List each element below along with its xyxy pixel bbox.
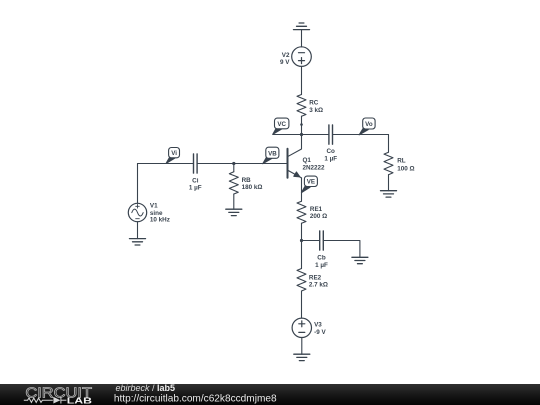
label Cb 1 uF xyxy=(315,255,328,269)
voltage source V1 (sine) xyxy=(128,203,146,221)
wire node to Cb xyxy=(302,240,320,242)
junction dot collector node xyxy=(300,133,303,136)
capacitor Ci xyxy=(194,154,198,173)
label RE1 200 Ohm xyxy=(310,206,327,220)
net flag VE xyxy=(301,176,317,193)
wire RE2 to V3 xyxy=(301,291,303,318)
wire RE1 to Cb node xyxy=(301,223,303,240)
wire V1 branch: top horizontal (base wire) xyxy=(138,163,194,165)
svg-text:2.7 kΩ: 2.7 kΩ xyxy=(309,282,328,289)
svg-text:RL: RL xyxy=(397,158,406,165)
resistor RB xyxy=(229,172,238,194)
label RE2 2.7 kOhm xyxy=(309,275,328,289)
voltage source V2 xyxy=(292,47,312,67)
svg-text:RB: RB xyxy=(242,177,252,184)
logo resistor-diode glyph xyxy=(24,397,67,404)
label V2 9 V xyxy=(280,52,290,66)
junction dot RB node xyxy=(232,162,235,165)
wire V3 to ground xyxy=(301,338,303,355)
svg-text:http://circuitlab.com/c62k8ccd: http://circuitlab.com/c62k8ccdmjme8 xyxy=(114,394,277,405)
svg-text:Q1: Q1 xyxy=(303,157,312,164)
wire down to RL xyxy=(388,135,390,153)
wire Co to RL corner xyxy=(333,134,389,136)
wire Ci to base xyxy=(197,163,287,165)
wire V1 to ground xyxy=(137,222,139,239)
svg-text:V3: V3 xyxy=(314,322,322,329)
svg-text:1 µF: 1 µF xyxy=(324,155,337,162)
svg-text:VE: VE xyxy=(307,179,315,186)
svg-text:100 Ω: 100 Ω xyxy=(397,165,414,172)
ground GND-RB xyxy=(226,209,242,215)
junction dot Cb node xyxy=(300,239,303,242)
svg-text:-9 V: -9 V xyxy=(314,329,326,336)
wire Vi branch down to V1 xyxy=(137,164,139,204)
wire RL to ground xyxy=(388,175,390,191)
svg-text:RC: RC xyxy=(309,99,319,106)
resistor RL xyxy=(384,152,393,175)
label RB 180 kOhm xyxy=(242,177,263,191)
label RC 3 kOhm xyxy=(309,99,323,114)
capacitor Cb xyxy=(320,231,324,250)
label V1 sine 10 kHz xyxy=(150,203,170,224)
svg-text:180 kΩ: 180 kΩ xyxy=(242,184,263,191)
capacitor Co xyxy=(329,125,333,144)
svg-text:Cb: Cb xyxy=(317,255,326,262)
svg-text:Vi: Vi xyxy=(171,150,177,157)
junction dot RC terminal xyxy=(300,123,303,126)
transistor Q1 2N2222 xyxy=(288,135,302,178)
ground GND-V1 xyxy=(130,239,146,245)
svg-text:Co: Co xyxy=(326,148,335,155)
svg-text:1 µF: 1 µF xyxy=(189,185,202,192)
svg-text:9 V: 9 V xyxy=(280,59,290,66)
svg-text:LAB: LAB xyxy=(67,395,92,405)
wire emitter down to RE1 xyxy=(301,178,303,201)
ground GND-RL xyxy=(381,191,397,197)
svg-text:3 kΩ: 3 kΩ xyxy=(309,107,323,114)
label RL 100 Ohm xyxy=(397,158,414,173)
label Q1 2N2222 xyxy=(303,157,326,172)
svg-text:V1: V1 xyxy=(150,203,158,210)
footer bar xyxy=(0,384,540,405)
wire RB to ground xyxy=(233,194,235,209)
svg-text:ebirbeck / lab5: ebirbeck / lab5 xyxy=(116,384,176,393)
ground GND-top (flipped, above V2) xyxy=(294,23,310,47)
resistor RE2 xyxy=(297,269,306,292)
ground GND-Cb xyxy=(352,257,368,263)
resistor RC xyxy=(297,95,306,117)
net flag VB xyxy=(263,147,279,164)
wire Cb to ground corner xyxy=(323,241,360,258)
wire collector node to Co xyxy=(273,134,329,136)
svg-text:RE1: RE1 xyxy=(310,206,323,213)
label Ci 1 uF xyxy=(189,177,202,191)
wire node down to RE2 xyxy=(301,241,303,269)
svg-text:Ci: Ci xyxy=(192,177,199,184)
ground GND-V3 xyxy=(294,354,310,360)
svg-text:2N2222: 2N2222 xyxy=(303,165,326,172)
net flag VC xyxy=(273,118,289,134)
wire RC to collector junction xyxy=(301,116,303,134)
svg-text:VB: VB xyxy=(268,150,277,157)
svg-text:RE2: RE2 xyxy=(309,275,322,282)
label Co 1 uF xyxy=(324,148,337,162)
svg-text:200 Ω: 200 Ω xyxy=(310,213,327,220)
wire RB node down xyxy=(233,164,235,172)
wire V2 to RC xyxy=(301,66,303,94)
svg-text:1 µF: 1 µF xyxy=(315,262,328,269)
net flag Vo xyxy=(359,118,375,135)
svg-text:VC: VC xyxy=(277,121,286,128)
label V3 -9 V xyxy=(314,322,326,336)
svg-text:10 kHz: 10 kHz xyxy=(150,217,170,224)
net flag Vi xyxy=(166,148,179,164)
resistor RE1 xyxy=(297,201,306,223)
voltage source V3 xyxy=(292,318,311,337)
svg-text:Vo: Vo xyxy=(365,121,373,128)
